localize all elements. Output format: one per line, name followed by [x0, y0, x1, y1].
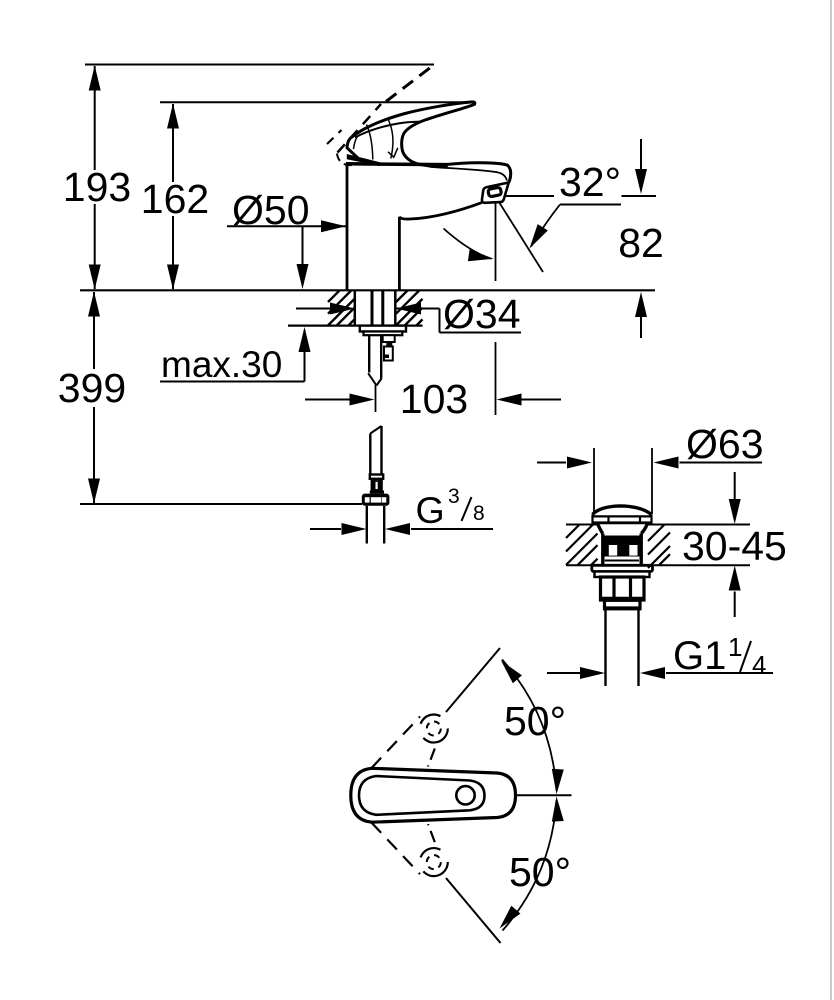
svg-text:G: G: [416, 489, 445, 531]
countertop deck line bottom: [288, 325, 423, 327]
G3/8 tailpipe: [366, 506, 368, 544]
svg-text:193: 193: [63, 164, 131, 210]
dimension 193: [63, 66, 131, 290]
flange plates: [592, 565, 653, 571]
svg-text:30-45: 30-45: [682, 523, 787, 569]
angle 32 degrees: [444, 159, 622, 281]
callout max.30 with up arrow: [160, 327, 311, 385]
lever nose wedge: [347, 154, 380, 166]
reference line second (162 level): [160, 101, 474, 103]
G3/8 nut: [362, 494, 390, 506]
svg-text:82: 82: [618, 220, 664, 266]
spout right face: [507, 165, 511, 183]
lever interior arc 1: [367, 125, 373, 160]
dimension G 3/8: [310, 485, 493, 535]
svg-text:50°: 50°: [509, 849, 571, 895]
washer plate 1: [360, 326, 406, 332]
svg-text:399: 399: [58, 365, 126, 411]
dimension diameter 63: [537, 421, 764, 514]
raised lever dashed line A: [386, 65, 434, 102]
collar: [605, 600, 641, 609]
dimension Ø34: [296, 291, 521, 337]
svg-text:8: 8: [473, 502, 485, 525]
svg-text:162: 162: [141, 176, 209, 222]
top view axis line: [516, 794, 572, 796]
top view lever inner line: [359, 776, 485, 815]
lever handle outline: [347, 102, 475, 166]
aerator inner insert: [488, 187, 502, 197]
svg-text:Ø34: Ø34: [443, 291, 521, 337]
hose end fitting collar: [370, 475, 383, 479]
dimension 82 with aerator level reference: [495, 139, 664, 338]
spout inner line: [430, 167, 507, 181]
countertop deck line top: [80, 289, 655, 291]
angle 50 degrees bottom: [495, 796, 571, 932]
rotated handle dashed bottom: [372, 823, 454, 882]
tailpipe: [604, 610, 606, 687]
dimension 30-45: [682, 472, 787, 617]
svg-text:3: 3: [448, 485, 460, 508]
neck: [598, 524, 603, 534]
faucet body top bar: [346, 162, 448, 166]
swing diagonal bottom: [446, 878, 501, 943]
nut: [601, 577, 645, 600]
mounting stud and nut: [383, 335, 395, 360]
body walls: [601, 534, 604, 566]
svg-text:1: 1: [728, 632, 742, 662]
shank outer walls: [354, 291, 357, 325]
svg-text:50°: 50°: [504, 698, 566, 744]
svg-text:Ø63: Ø63: [686, 421, 764, 467]
faucet body right edge: [398, 217, 401, 290]
supply hose lower segment: [370, 426, 381, 475]
swing diagonal top: [446, 648, 500, 712]
lever nose inner face line: [354, 136, 358, 149]
spout underside: [399, 203, 481, 219]
supply hose upper segment: [368, 335, 381, 385]
dimension 103: [305, 342, 561, 422]
svg-text:G1: G1: [673, 634, 726, 678]
basin hatch right: [648, 525, 670, 569]
body interior: [605, 536, 640, 557]
hose end fitting body: [370, 479, 384, 494]
spout top outline: [448, 163, 507, 165]
basin hatch left: [566, 525, 598, 566]
dimension 399: [58, 292, 126, 504]
deck hatch left block: [328, 290, 355, 325]
angle 50 degrees top: [496, 657, 566, 795]
svg-text:32°: 32°: [559, 159, 621, 205]
lever top inner line: [355, 122, 421, 138]
rotated handle dashed top: [372, 709, 454, 768]
svg-text:103: 103: [400, 376, 468, 422]
drain fitting: [592, 506, 653, 686]
lever V mark: [388, 148, 398, 157]
dimension Ø50: [227, 187, 346, 233]
svg-text:4: 4: [752, 650, 766, 680]
reference line top (193 level): [85, 64, 434, 66]
raised lever dashed line B: [338, 104, 382, 153]
aerator outline: [482, 183, 509, 203]
faucet body left edge: [346, 163, 349, 290]
svg-text:max.30: max.30: [161, 344, 282, 385]
dome cap: [593, 506, 652, 515]
svg-text:Ø50: Ø50: [232, 187, 310, 233]
dimension G1 1/4: [547, 632, 773, 680]
reference line bottom (399 level): [80, 503, 362, 505]
raised lever dashed nose: [327, 130, 342, 144]
washer plate 2: [364, 332, 403, 336]
shank studs: [371, 291, 374, 334]
dimension 162: [141, 104, 209, 290]
deck hatch right block: [396, 290, 423, 325]
basin deck lines around drain: [566, 525, 750, 566]
deck thickness arrow above (down): [297, 226, 309, 289]
top view pivot circle: [456, 786, 474, 804]
page border right: [830, 0, 832, 1000]
lever interior arc 2: [389, 120, 393, 159]
top view lever handle outer: [351, 768, 516, 822]
